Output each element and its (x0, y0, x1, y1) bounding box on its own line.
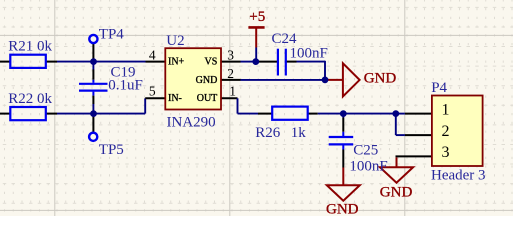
svg-text:Header 3: Header 3 (431, 168, 486, 184)
svg-text:TP4: TP4 (99, 27, 125, 43)
svg-text:1: 1 (229, 84, 236, 99)
svg-text:IN-: IN- (168, 93, 182, 104)
svg-text:GND: GND (364, 71, 397, 87)
svg-text:GND: GND (326, 201, 359, 216)
svg-text:VS: VS (205, 56, 218, 67)
svg-text:R22 0k: R22 0k (8, 91, 52, 107)
svg-text:OUT: OUT (197, 93, 218, 104)
svg-text:U2: U2 (166, 33, 184, 49)
svg-text:P4: P4 (431, 80, 447, 96)
svg-text:4: 4 (149, 47, 156, 62)
svg-text:GND: GND (196, 75, 218, 86)
svg-text:IN+: IN+ (168, 56, 185, 67)
svg-text:C25: C25 (353, 142, 378, 158)
svg-text:0.1uF: 0.1uF (108, 78, 143, 94)
svg-text:1k: 1k (291, 125, 307, 141)
svg-text:100nF: 100nF (290, 45, 328, 61)
svg-text:100nF: 100nF (349, 158, 387, 174)
svg-text:2: 2 (442, 123, 450, 140)
svg-text:GND: GND (380, 185, 413, 201)
svg-text:TP5: TP5 (99, 142, 124, 158)
svg-text:R26: R26 (255, 125, 281, 141)
svg-text:+5: +5 (249, 9, 265, 25)
svg-text:3: 3 (442, 144, 450, 161)
svg-text:R21 0k: R21 0k (8, 39, 52, 55)
svg-text:5: 5 (149, 84, 156, 99)
svg-text:INA290: INA290 (167, 114, 216, 130)
svg-text:3: 3 (227, 47, 234, 62)
svg-text:1: 1 (442, 101, 450, 118)
svg-text:2: 2 (227, 66, 234, 81)
